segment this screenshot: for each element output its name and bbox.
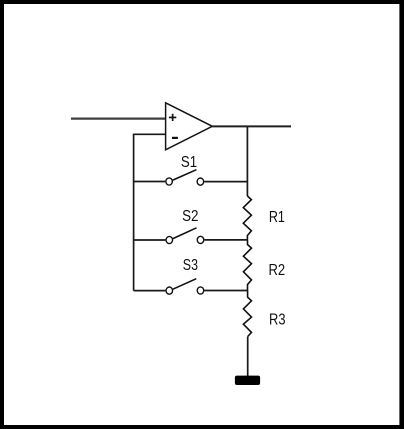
wire non-inverting input bbox=[71, 117, 166, 119]
resistor R3 bbox=[243, 291, 251, 337]
svg-text:R2: R2 bbox=[269, 262, 286, 279]
ground bbox=[235, 376, 260, 385]
wire S3 left bbox=[134, 290, 166, 292]
wire R3 to ground bbox=[247, 337, 249, 377]
wire S3 right bbox=[204, 290, 247, 292]
wire S2 right bbox=[204, 239, 247, 241]
wire output to R1 drop bbox=[246, 126, 248, 196]
op-amp U1 bbox=[166, 103, 213, 150]
svg-text:R1: R1 bbox=[269, 209, 285, 226]
svg-text:R3: R3 bbox=[269, 311, 286, 328]
wire S1 right bbox=[204, 181, 247, 183]
switch S2 bbox=[166, 228, 204, 244]
pin label + bbox=[169, 114, 176, 121]
svg-text:S3: S3 bbox=[183, 257, 198, 274]
wire inverting input bbox=[134, 133, 166, 135]
wire S1 left bbox=[134, 181, 166, 183]
resistor R1 bbox=[243, 196, 251, 240]
resistor R2 bbox=[243, 240, 251, 291]
wire op-amp output bbox=[212, 125, 291, 127]
svg-text:S1: S1 bbox=[181, 154, 197, 171]
svg-text:S2: S2 bbox=[182, 208, 198, 225]
switch S3 bbox=[166, 279, 204, 295]
wire left feedback bus bbox=[133, 134, 135, 291]
switch S1 bbox=[166, 170, 204, 186]
pin label - bbox=[172, 137, 178, 139]
wire S2 left bbox=[134, 239, 166, 241]
